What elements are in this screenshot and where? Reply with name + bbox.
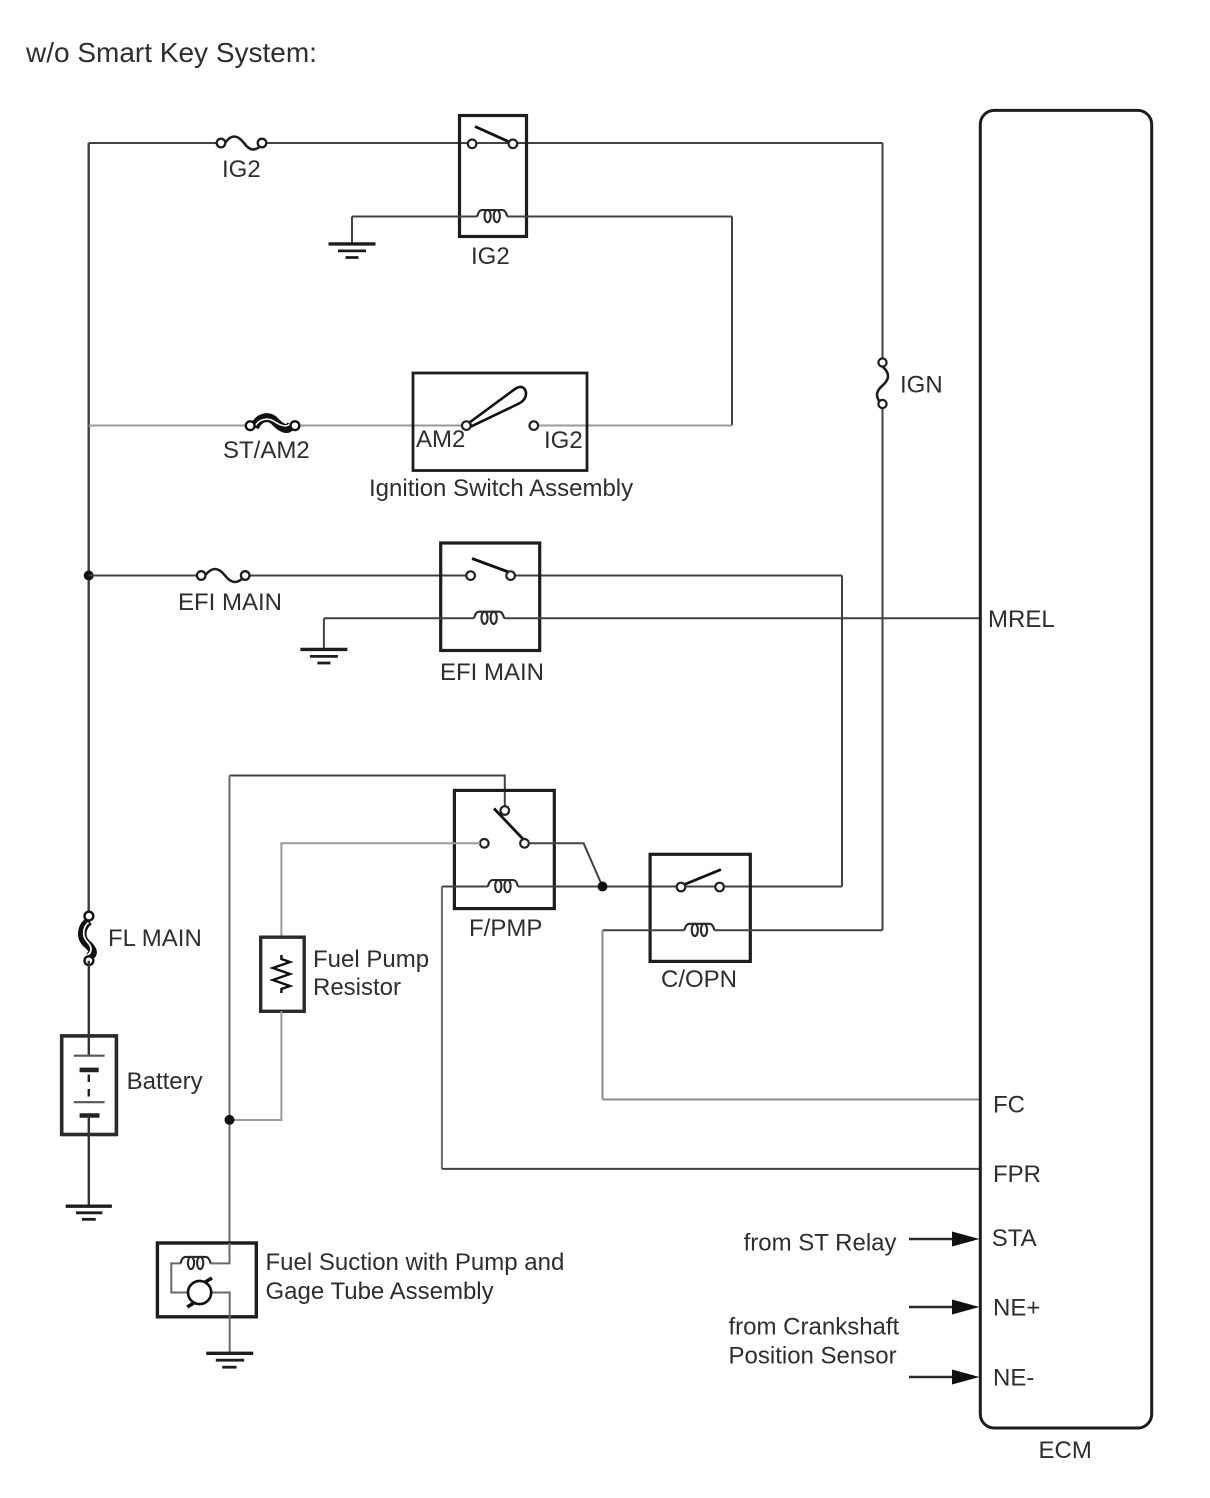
battery plate 4 [80,1113,100,1118]
resistor zigzag [273,955,290,993]
fuse EFI MAIN [197,569,250,582]
battery top lead [88,961,90,1056]
svg-text:ST/AM2: ST/AM2 [223,437,310,464]
fuel pump motor [187,1278,212,1307]
svg-text:F/PMP: F/PMP [469,915,542,942]
wire: FPR row [442,1168,980,1170]
wire: EFI coil ground stub [323,618,325,649]
relay C/OPN coil [684,924,714,936]
svg-text:EFI MAIN: EFI MAIN [440,659,544,686]
relay IG2 box [460,116,527,237]
fuel suction assembly box [157,1243,256,1317]
svg-text:Resistor: Resistor [313,974,401,1001]
resistor box (Fuel Pump Resistor) [261,937,305,1011]
svg-text:Position Sensor: Position Sensor [729,1343,897,1370]
wire: F/PMP right contact diagonal to junction [529,843,603,886]
svg-text:Ignition Switch Assembly: Ignition Switch Assembly [369,475,633,502]
svg-text:NE+: NE+ [993,1295,1040,1322]
relay F/PMP contact right [520,839,529,848]
fuse IGN [877,358,888,408]
wire: EFI MAIN row [89,575,842,577]
svg-text:IGN: IGN [900,372,943,399]
relay C/OPN contact right [715,883,724,892]
wire: pump internal path [171,1243,229,1317]
svg-text:AM2: AM2 [416,426,465,453]
svg-text:IG2: IG2 [544,427,583,454]
relay F/PMP box [454,790,554,908]
wire: F/PMP top link [230,776,505,807]
svg-text:EFI MAIN: EFI MAIN [178,589,282,616]
svg-text:IG2: IG2 [471,243,510,270]
wire: F/PMP coil row [442,886,842,888]
ECM box [980,110,1151,1428]
battery box [62,1036,117,1135]
wire: IGN drop from top row [882,143,884,930]
svg-text:FL MAIN: FL MAIN [108,925,202,952]
wire: EFI switch output drop [841,576,843,887]
wire: F/PMP coil to FPR drop [441,887,443,1169]
relay IG2 contact right [509,140,518,149]
battery dashed link [88,1075,90,1099]
ground (EFI MAIN relay coil) [300,649,347,663]
relay C/OPN contact left [677,883,686,892]
wire: left main vertical bus [87,143,89,912]
wire: IG2 coil ground stub [351,217,353,244]
relay C/OPN switch blade [684,870,721,885]
relay IG2 switch blade [475,127,511,143]
svg-text:from ST Relay: from ST Relay [744,1230,897,1257]
fusible link ST/AM2 [246,418,299,430]
node: junction F/PMP coil / C-OPN switch [598,882,608,892]
svg-text:MREL: MREL [988,606,1055,633]
relay F/PMP switch blade [494,809,523,840]
relay F/PMP contact top [501,806,510,815]
svg-text:Battery: Battery [127,1068,203,1095]
svg-text:C/OPN: C/OPN [661,966,737,993]
ground (IG2 relay coil) [329,244,376,258]
relay EFI MAIN box [441,543,540,651]
node: junction resistor / pump line [225,1115,235,1125]
relay EFI MAIN contact left [466,571,475,580]
relay F/PMP coil [488,880,518,892]
wire: EFI coil / MREL row [324,617,980,619]
wire: FC row [603,1099,981,1101]
ground (fuel pump) [206,1353,253,1367]
svg-text:FC: FC [993,1092,1025,1119]
battery bottom lead [88,1116,90,1207]
fuse IG2 [217,137,267,150]
fusible link FL MAIN [82,912,93,965]
battery plate 1 [74,1055,105,1057]
battery plate 2 [80,1068,99,1073]
arrow into NE+ [909,1300,980,1315]
battery plate 3 [74,1101,105,1103]
fuel pump coil [181,1257,211,1269]
relay EFI MAIN coil [474,612,504,624]
svg-text:Fuel Pump: Fuel Pump [313,946,429,973]
svg-text:Gage Tube Assembly: Gage Tube Assembly [266,1278,494,1305]
ignition switch key wedge [470,387,527,426]
relay EFI MAIN contact right [506,571,515,580]
node: junction left bus / EFI row [84,571,94,581]
wire: F/PMP left contact to resistor [281,843,480,937]
wire: C/OPN coil row [603,929,883,931]
arrow into STA [909,1232,980,1247]
wire: IG2 coil to ignition switch drop [731,217,733,426]
relay IG2 coil [477,210,507,222]
svg-text:from Crankshaft: from Crankshaft [729,1314,900,1341]
relay IG2 contact left [468,140,477,149]
wire: IG2 coil row [352,216,732,218]
ignition switch contact IG2 [530,421,539,430]
ignition switch contact AM2 [462,421,471,430]
ignition switch assembly box [413,373,587,471]
ground (battery) [66,1206,112,1219]
wire: C/OPN coil to FC drop [602,930,604,1099]
wire: fuel pump long vertical [229,776,231,1244]
wire: pump ground stub [229,1317,231,1354]
relay C/OPN box [650,854,750,961]
arrow into NE- [909,1370,980,1385]
svg-text:w/o Smart Key System:: w/o Smart Key System: [25,37,317,68]
relay EFI MAIN switch blade [472,559,509,573]
wire: ST/AM2 row [89,425,732,427]
svg-text:Fuel Suction with Pump and: Fuel Suction with Pump and [266,1249,565,1276]
svg-text:NE-: NE- [993,1364,1034,1391]
svg-text:FPR: FPR [993,1161,1041,1188]
svg-text:ECM: ECM [1039,1437,1092,1464]
wire: top row to IG2 relay and IGN drop [89,142,883,144]
wire: resistor lower leg to junction [230,1011,282,1120]
svg-text:IG2: IG2 [222,156,261,183]
relay F/PMP contact left [480,839,489,848]
svg-text:STA: STA [992,1225,1037,1252]
